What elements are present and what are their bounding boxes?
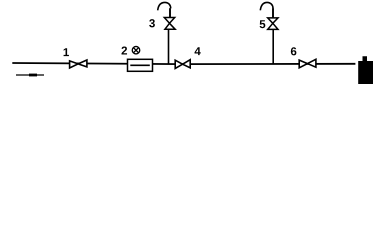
valve V1 <box>70 60 87 68</box>
label 2 <box>122 46 128 54</box>
indicator circle-cross above component 2 <box>132 46 140 54</box>
valve V6 <box>299 59 316 68</box>
equipment silhouette (cut off at right edge) <box>358 56 373 84</box>
label 5 <box>260 20 266 28</box>
wire stub lower-left <box>16 74 44 76</box>
component 2 body (inline unit box) <box>128 59 153 71</box>
label 6 <box>291 47 297 55</box>
lower-left thick tick <box>29 74 37 77</box>
wire stub above valve 3 <box>169 8 171 18</box>
wire branch riser to valve 5 <box>272 29 274 64</box>
component 2 internal element <box>130 64 150 66</box>
vent gooseneck above valve 3 <box>158 2 171 10</box>
wire branch riser to valve 3 <box>168 29 170 64</box>
valve V3 (vertical) <box>164 18 175 30</box>
wire main pipe line <box>12 63 355 64</box>
label 1 <box>64 48 69 56</box>
valve V4 <box>175 60 190 69</box>
valve V5 (vertical) <box>268 18 278 30</box>
wire stub above valve 5 <box>272 8 274 18</box>
vent gooseneck above valve 5 <box>260 2 273 10</box>
label 4 <box>195 47 201 55</box>
label 3 <box>149 19 155 27</box>
